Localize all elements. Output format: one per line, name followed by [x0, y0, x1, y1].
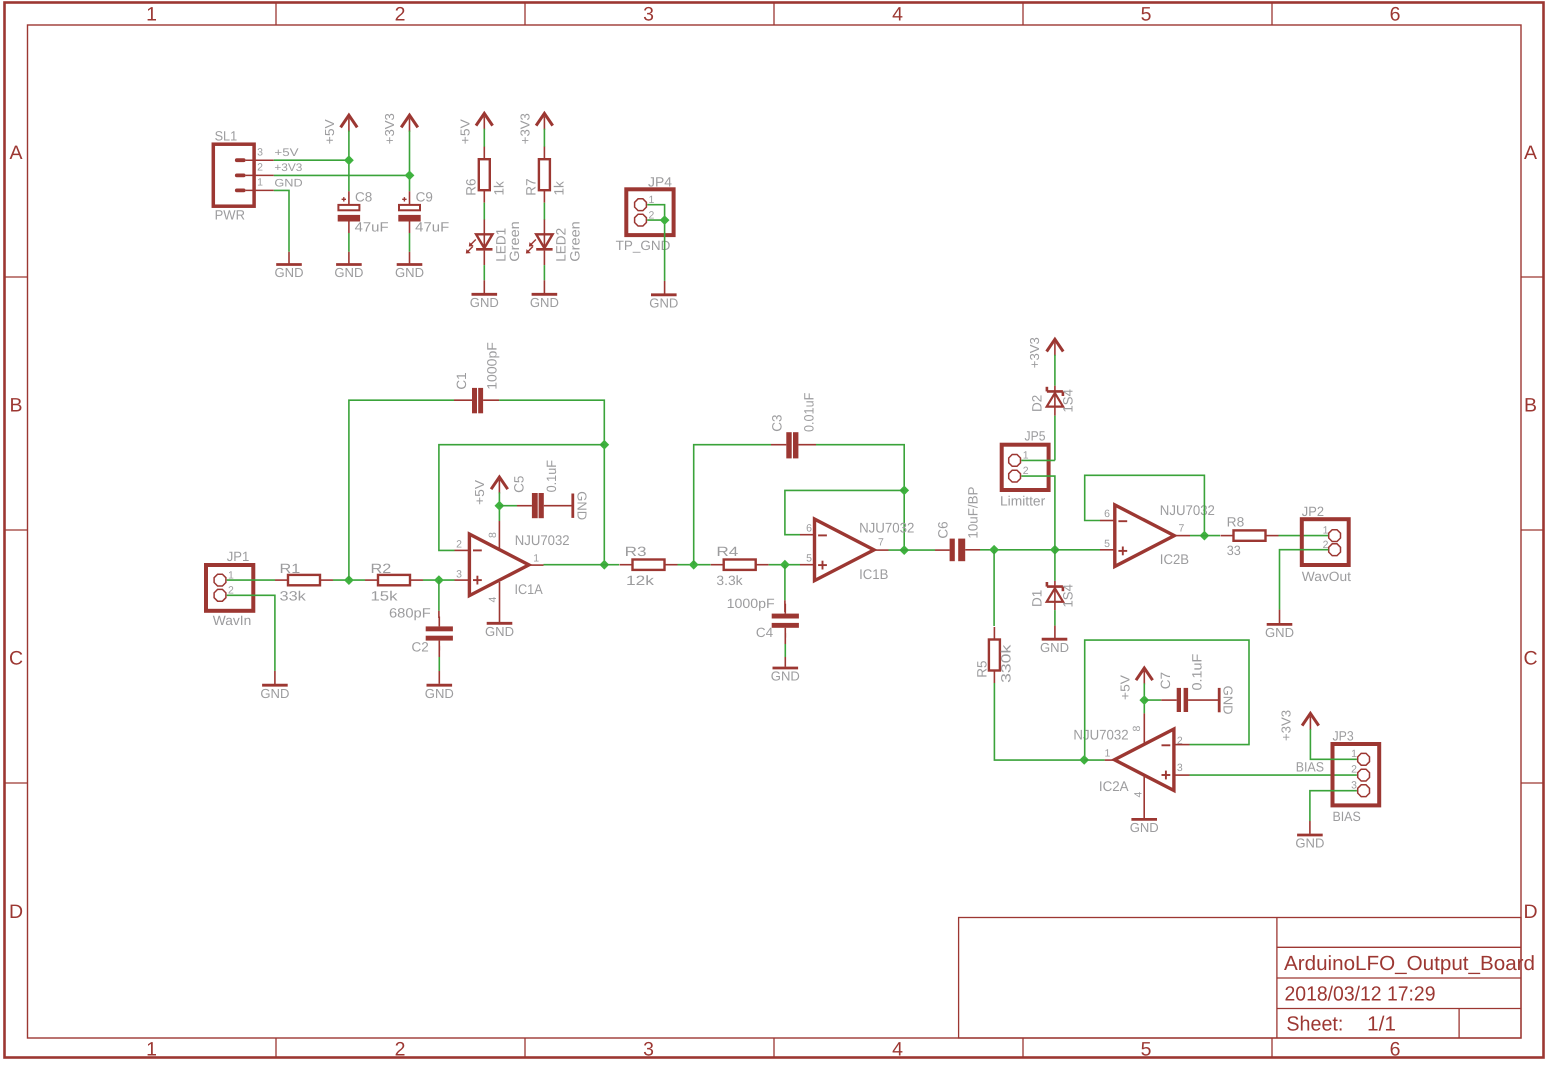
svg-text:3: 3 — [643, 1038, 654, 1060]
svg-text:8: 8 — [487, 532, 499, 538]
svg-text:+5V: +5V — [1118, 675, 1133, 700]
svg-text:1S4: 1S4 — [1061, 389, 1076, 413]
svg-text:+5V: +5V — [274, 147, 299, 159]
svg-text:+3V3: +3V3 — [1027, 337, 1042, 368]
svg-text:1000pF: 1000pF — [727, 596, 775, 611]
svg-text:15k: 15k — [371, 589, 398, 604]
svg-text:IC2A: IC2A — [1099, 778, 1129, 794]
svg-text:BIAS: BIAS — [1332, 809, 1360, 824]
svg-text:0.1uF: 0.1uF — [544, 460, 559, 492]
svg-text:TP_GND: TP_GND — [616, 238, 671, 253]
svg-text:3: 3 — [257, 146, 263, 158]
svg-text:C: C — [9, 648, 23, 670]
svg-text:7: 7 — [878, 537, 884, 549]
svg-text:GND: GND — [1221, 686, 1236, 715]
svg-text:2: 2 — [1023, 465, 1029, 477]
svg-text:1: 1 — [257, 177, 263, 189]
svg-text:2: 2 — [1351, 764, 1357, 776]
svg-text:2: 2 — [395, 4, 406, 26]
svg-text:R8: R8 — [1227, 514, 1245, 529]
svg-text:33k: 33k — [280, 589, 307, 604]
svg-text:GND: GND — [1130, 820, 1159, 835]
svg-text:+5V: +5V — [322, 119, 337, 144]
svg-text:+3V3: +3V3 — [274, 162, 302, 174]
svg-text:ArduinoLFO_Output_Board: ArduinoLFO_Output_Board — [1284, 952, 1535, 975]
svg-text:GND: GND — [530, 295, 559, 310]
svg-text:1k: 1k — [551, 181, 566, 196]
svg-text:6: 6 — [806, 523, 812, 535]
svg-text:+3V3: +3V3 — [1279, 710, 1294, 741]
svg-text:1: 1 — [1105, 748, 1111, 760]
svg-text:A: A — [9, 142, 22, 164]
svg-text:4: 4 — [487, 597, 499, 603]
svg-text:4: 4 — [892, 4, 903, 26]
svg-text:IC2B: IC2B — [1160, 551, 1189, 567]
svg-text:3: 3 — [456, 568, 462, 580]
svg-text:GND: GND — [574, 491, 589, 520]
svg-text:47uF: 47uF — [415, 220, 449, 235]
svg-text:R2: R2 — [371, 561, 392, 576]
svg-text:C8: C8 — [355, 189, 372, 204]
svg-text:GND: GND — [649, 296, 678, 311]
svg-text:GND: GND — [425, 686, 454, 701]
svg-text:+5V: +5V — [458, 119, 473, 144]
svg-text:GND: GND — [274, 177, 302, 189]
svg-text:WavOut: WavOut — [1302, 569, 1351, 584]
svg-text:+5V: +5V — [472, 480, 487, 505]
svg-text:+3V3: +3V3 — [518, 113, 533, 144]
svg-text:JP4: JP4 — [648, 174, 673, 189]
svg-text:R4: R4 — [716, 544, 739, 559]
svg-text:R1: R1 — [280, 561, 301, 576]
svg-text:C1: C1 — [454, 372, 469, 389]
svg-text:R5: R5 — [975, 660, 990, 677]
svg-text:C2: C2 — [412, 639, 429, 654]
svg-text:C6: C6 — [935, 521, 950, 538]
svg-text:Sheet:: Sheet: — [1286, 1013, 1343, 1036]
svg-text:12k: 12k — [626, 573, 654, 588]
svg-text:1: 1 — [1323, 524, 1329, 536]
svg-text:5: 5 — [1141, 1038, 1152, 1060]
svg-text:GND: GND — [334, 265, 363, 280]
svg-text:GND: GND — [260, 686, 289, 701]
svg-text:GND: GND — [771, 669, 800, 684]
svg-text:47uF: 47uF — [355, 220, 389, 235]
svg-text:IC1B: IC1B — [859, 566, 888, 582]
svg-text:2: 2 — [395, 1038, 406, 1060]
svg-text:C3: C3 — [770, 415, 785, 432]
svg-text:1000pF: 1000pF — [484, 342, 499, 390]
svg-text:2018/03/12 17:29: 2018/03/12 17:29 — [1285, 982, 1436, 1005]
svg-text:R7: R7 — [524, 179, 539, 196]
svg-text:7: 7 — [1179, 522, 1185, 534]
svg-text:Green: Green — [567, 221, 582, 262]
svg-text:GND: GND — [275, 265, 304, 280]
svg-text:+3V3: +3V3 — [382, 113, 397, 144]
svg-text:8: 8 — [1131, 726, 1143, 732]
svg-text:1: 1 — [146, 1038, 157, 1060]
svg-text:NJU7032: NJU7032 — [1160, 502, 1215, 518]
svg-text:R3: R3 — [625, 544, 647, 559]
svg-text:D2: D2 — [1030, 395, 1045, 412]
svg-text:5: 5 — [806, 553, 812, 565]
svg-text:4: 4 — [1133, 792, 1145, 798]
svg-text:0.1uF: 0.1uF — [1190, 654, 1205, 691]
svg-text:JP1: JP1 — [227, 549, 250, 564]
svg-text:GND: GND — [1295, 836, 1324, 851]
svg-text:BIAS: BIAS — [1296, 760, 1324, 775]
svg-text:10uF/BP: 10uF/BP — [966, 486, 981, 538]
svg-text:A: A — [1524, 142, 1537, 164]
svg-text:JP3: JP3 — [1333, 729, 1354, 744]
svg-text:6: 6 — [1390, 4, 1401, 26]
svg-text:SL1: SL1 — [215, 128, 238, 143]
svg-text:1: 1 — [1023, 449, 1029, 461]
svg-text:1: 1 — [533, 553, 539, 565]
svg-text:D1: D1 — [1030, 590, 1045, 607]
svg-text:5: 5 — [1141, 4, 1152, 26]
svg-text:6: 6 — [1104, 508, 1110, 520]
svg-text:1: 1 — [1351, 748, 1357, 760]
svg-text:B: B — [9, 395, 22, 417]
svg-text:0.01uF: 0.01uF — [802, 393, 817, 432]
svg-text:C5: C5 — [512, 476, 527, 493]
svg-text:1k: 1k — [491, 181, 506, 196]
svg-text:NJU7032: NJU7032 — [1073, 727, 1128, 743]
svg-text:R6: R6 — [464, 179, 479, 196]
svg-text:C9: C9 — [416, 189, 433, 204]
svg-text:JP5: JP5 — [1025, 429, 1046, 444]
svg-text:GND: GND — [395, 265, 424, 280]
svg-text:3: 3 — [643, 4, 654, 26]
svg-text:WavIn: WavIn — [213, 613, 252, 628]
svg-text:3: 3 — [1177, 762, 1183, 774]
svg-text:GND: GND — [485, 624, 514, 639]
svg-text:GND: GND — [1040, 640, 1069, 655]
svg-text:5: 5 — [1104, 538, 1110, 550]
svg-text:C: C — [1523, 648, 1537, 670]
svg-text:1S4: 1S4 — [1061, 584, 1076, 608]
svg-text:1/1: 1/1 — [1367, 1013, 1396, 1036]
svg-text:D: D — [1523, 901, 1537, 923]
svg-text:Limitter: Limitter — [1000, 494, 1046, 509]
svg-text:330k: 330k — [999, 644, 1014, 683]
svg-text:JP2: JP2 — [1302, 504, 1324, 519]
svg-text:IC1A: IC1A — [515, 581, 544, 597]
svg-text:Green: Green — [507, 221, 522, 262]
svg-text:680pF: 680pF — [389, 605, 431, 620]
svg-text:33: 33 — [1227, 543, 1241, 558]
svg-text:3: 3 — [1351, 779, 1357, 791]
svg-text:3.3k: 3.3k — [716, 573, 742, 588]
svg-text:B: B — [1524, 395, 1537, 417]
svg-text:GND: GND — [470, 295, 499, 310]
svg-text:2: 2 — [257, 162, 263, 174]
svg-text:C4: C4 — [756, 625, 774, 640]
svg-text:NJU7032: NJU7032 — [515, 532, 570, 548]
svg-text:C7: C7 — [1158, 672, 1173, 689]
svg-text:1: 1 — [146, 4, 157, 26]
svg-text:2: 2 — [456, 538, 462, 550]
svg-text:PWR: PWR — [215, 207, 246, 222]
svg-text:GND: GND — [1265, 625, 1294, 640]
svg-text:NJU7032: NJU7032 — [859, 520, 914, 536]
svg-text:4: 4 — [892, 1038, 903, 1060]
svg-text:D: D — [9, 901, 23, 923]
svg-text:6: 6 — [1390, 1038, 1401, 1060]
